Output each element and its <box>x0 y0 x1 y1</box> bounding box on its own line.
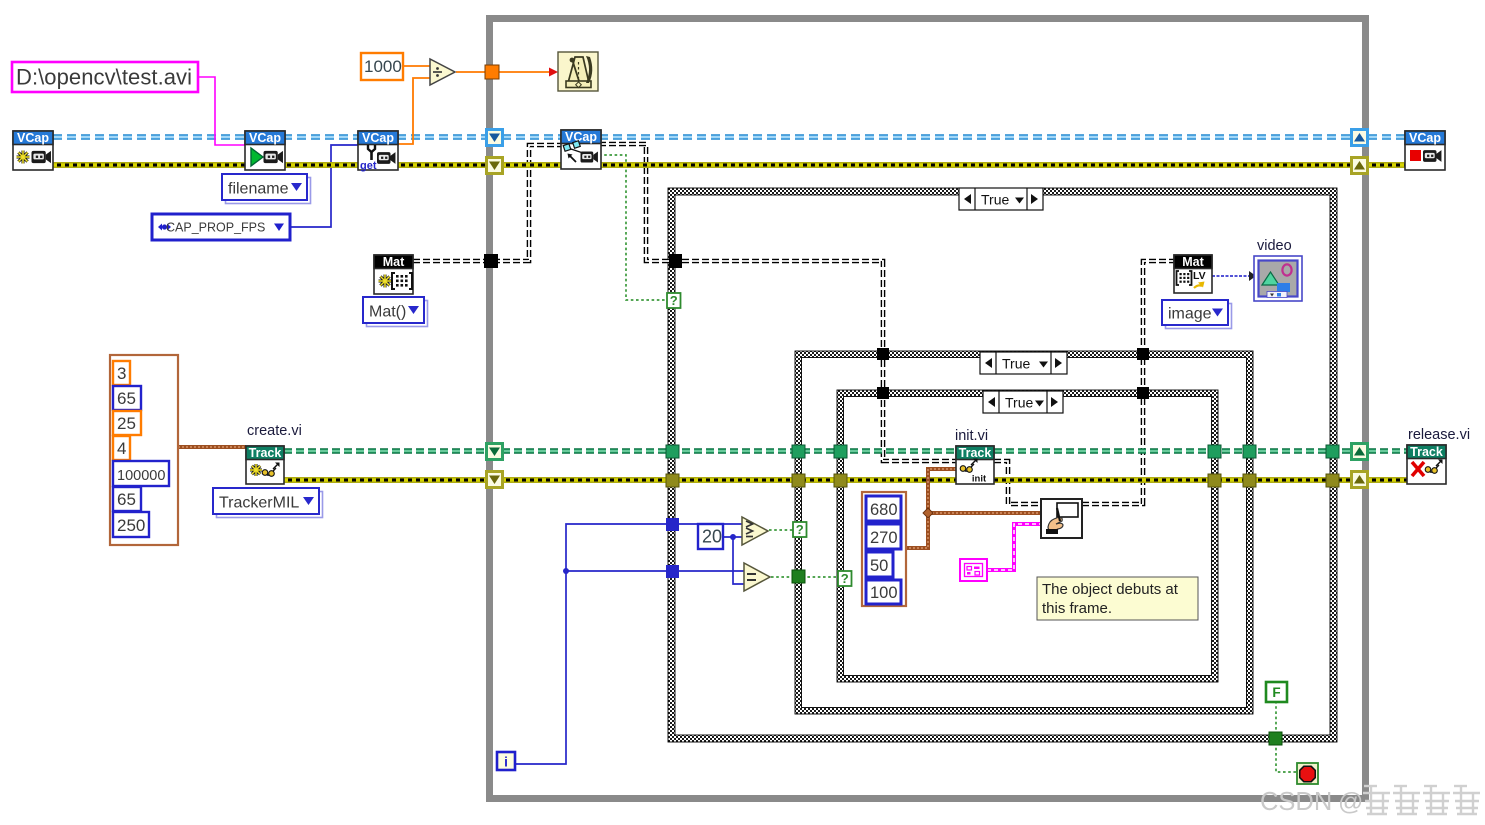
wire error cluster top (olive/black) <box>53 162 1405 168</box>
tunnel error (olive) inner right <box>1208 474 1221 487</box>
shift register left tracker (green, down) <box>485 442 504 461</box>
numeric 100 <box>866 580 901 604</box>
cluster constant rectangle 680/270/50/100 <box>862 492 906 606</box>
svg-text:4: 4 <box>117 439 126 458</box>
ring constant image <box>1162 300 1232 329</box>
wire rect cluster branch to draw node <box>923 508 1041 518</box>
node Mat constant (new Mat) <box>374 255 413 294</box>
tunnel tracker (green) middle right <box>1243 445 1256 458</box>
watermark CJK glyphs <box>1363 786 1390 814</box>
tunnel wait ms (orange) on loop border <box>485 65 499 79</box>
node draw rectangle <box>1041 499 1082 538</box>
wire i counter to comparisons <box>514 524 742 764</box>
shift register left error top (olive, down) <box>485 156 504 175</box>
selector terminal ? outer case <box>667 293 681 308</box>
svg-text:680: 680 <box>870 501 898 519</box>
svg-text:?: ? <box>796 522 804 537</box>
svg-text:video: video <box>1257 238 1292 254</box>
selector terminal ? middle case <box>793 522 807 537</box>
wire rect cluster to init.vi <box>905 469 956 548</box>
numeric 65b (blue) <box>113 487 141 511</box>
iteration terminal i <box>497 752 515 770</box>
svg-text:25: 25 <box>117 414 136 433</box>
numeric constant 1000 <box>361 53 403 80</box>
svg-text:Mat(): Mat() <box>369 304 406 321</box>
svg-text:create.vi: create.vi <box>247 423 302 439</box>
shift register left error bottom (olive, down) <box>485 470 504 489</box>
svg-text:CSDN: CSDN <box>1260 788 1332 816</box>
svg-text:50: 50 <box>870 557 888 575</box>
svg-text:VCap: VCap <box>362 131 394 145</box>
numeric 4 (orange) <box>113 436 130 460</box>
svg-text:270: 270 <box>870 529 898 547</box>
wire divide to wait node <box>456 68 558 77</box>
wire error cluster bottom (olive/black) <box>284 477 1407 483</box>
svg-text:?: ? <box>841 571 849 586</box>
shift register right tracker (green, up) <box>1350 442 1369 461</box>
svg-text:True: True <box>981 192 1009 208</box>
node create.vi (Track) <box>246 446 284 484</box>
svg-text:@: @ <box>1338 788 1363 816</box>
numeric 250 (blue) <box>113 512 149 537</box>
svg-text:image: image <box>1168 306 1212 323</box>
wire parameters cluster to create.vi <box>178 445 246 449</box>
tunnel Mat (black) on inner case top left <box>877 387 889 399</box>
tunnel tracker (green) inner right <box>1208 445 1221 458</box>
svg-text:250: 250 <box>117 516 145 535</box>
svg-text:VCap: VCap <box>1409 131 1441 145</box>
tunnel Mat (black) on middle case top right <box>1137 348 1149 360</box>
case label inner True <box>983 391 1063 413</box>
tunnel tracker (green) inner left <box>834 445 847 458</box>
tunnel tracker (green) outer left <box>666 445 679 458</box>
wire Mat image from read node into outer case down to init.vi <box>599 144 956 461</box>
wire boolean from >= to middle case selector <box>769 529 793 531</box>
svg-text:get: get <box>360 160 377 172</box>
wire CAP_PROP_FPS to VCap get <box>290 145 358 227</box>
case structure middle (True) <box>795 351 1253 714</box>
svg-text:True: True <box>1005 395 1033 411</box>
node VCap release <box>1405 131 1445 170</box>
wire Mat image (black chain) from Mat constant into loop to read node <box>413 145 561 261</box>
svg-text:filename: filename <box>228 181 289 198</box>
wire 1000 to divide <box>403 65 430 67</box>
svg-text:D:\opencv\test.avi: D:\opencv\test.avi <box>16 65 192 90</box>
indicator video (image display terminal) <box>1254 256 1302 301</box>
shift register right error top (olive, up) <box>1350 156 1369 175</box>
svg-text:?: ? <box>670 293 678 308</box>
numeric 100000 (blue) <box>113 461 169 486</box>
case structure inner (True) <box>837 390 1218 682</box>
wire 20 constant to >= and = <box>723 534 744 584</box>
svg-text:100: 100 <box>870 584 898 602</box>
tunnel tracker (green) outer right <box>1326 445 1339 458</box>
node text options constant (magenta) <box>960 559 987 581</box>
numeric 3 (orange) <box>113 361 130 385</box>
svg-text:CAP_PROP_FPS: CAP_PROP_FPS <box>166 221 265 235</box>
tunnel boolean (green) outer case bottom for F wire <box>1269 732 1282 745</box>
tunnel int i (blue) outer case upper <box>666 518 679 531</box>
case label outer True <box>959 188 1043 210</box>
svg-text:init.vi: init.vi <box>955 428 988 444</box>
wire image to video indicator <box>1212 271 1256 281</box>
svg-text:this frame.: this frame. <box>1042 600 1112 617</box>
svg-text:20: 20 <box>702 527 722 547</box>
svg-text:65: 65 <box>117 490 136 509</box>
svg-text:Track: Track <box>1410 445 1443 459</box>
node VCap open (camera constructor) <box>13 131 53 170</box>
svg-text:Track: Track <box>249 446 282 460</box>
svg-text:VCap: VCap <box>565 130 597 144</box>
numeric 270 <box>866 524 901 549</box>
tunnel tracker (green) middle left <box>792 445 805 458</box>
selector terminal ? inner case <box>838 571 852 586</box>
svg-text:100000: 100000 <box>117 468 165 484</box>
wire tracker reference (green dashed) <box>284 448 1407 453</box>
cluster constant tracker parameters <box>110 355 178 545</box>
svg-text:VCap: VCap <box>17 131 49 145</box>
svg-text:VCap: VCap <box>249 131 281 145</box>
shift register right VCap (cyan, up) <box>1350 128 1369 147</box>
node VCap read frame <box>561 130 601 169</box>
tunnel error (olive) outer left <box>666 474 679 487</box>
node VCap isOpened/run <box>245 131 285 170</box>
svg-text:i: i <box>504 755 508 770</box>
tunnel error (olive) middle right <box>1243 474 1256 487</box>
node init.vi (Track) <box>956 446 994 485</box>
tunnel Mat (black) on middle case top left <box>877 348 889 360</box>
while loop border <box>490 19 1366 799</box>
shift register left VCap (cyan, down) <box>485 128 504 147</box>
node release.vi (Track) <box>1407 445 1446 484</box>
wire boolean from read node to outer case selector <box>599 155 667 300</box>
wire VCap get fps to divide <box>397 78 430 144</box>
numeric 50 <box>866 552 893 577</box>
node divide <box>430 59 455 85</box>
ring constant Mat() <box>363 297 428 327</box>
svg-text:True: True <box>1002 356 1030 372</box>
wire text options to draw node (magenta dashed) <box>987 524 1041 570</box>
svg-text:Mat: Mat <box>383 255 405 269</box>
node equal <box>744 563 770 591</box>
watermark CSDN <box>1260 788 1363 816</box>
boolean False constant F <box>1266 682 1287 702</box>
wire Mat image from init.vi to draw node <box>994 461 1041 504</box>
wire boolean from F constant to stop terminal <box>1276 701 1297 772</box>
tunnel Mat (black) on inner case top right <box>1137 387 1149 399</box>
shift register right error bottom (olive, up) <box>1350 470 1369 489</box>
svg-text:release.vi: release.vi <box>1408 427 1470 443</box>
wire VCap reference (cyan dashed) <box>53 134 1405 139</box>
svg-text:F: F <box>1272 685 1280 700</box>
svg-text:TrackerMIL: TrackerMIL <box>219 495 299 512</box>
case structure outer (True) <box>668 188 1337 742</box>
svg-text:65: 65 <box>117 389 136 408</box>
svg-text:Mat: Mat <box>1182 255 1204 269</box>
svg-text:Track: Track <box>959 446 992 460</box>
tunnel error (olive) inner left <box>834 474 847 487</box>
string constant D:\opencv\test.avi <box>12 62 198 92</box>
tunnel error (olive) middle left <box>792 474 805 487</box>
numeric constant 20 <box>698 524 723 549</box>
enum constant CAP_PROP_FPS <box>152 214 290 240</box>
node VCap get (wrench) <box>358 131 398 172</box>
wire i branch to = <box>563 568 744 574</box>
case label middle True <box>980 352 1067 374</box>
node wait until next ms multiple (metronome) <box>558 52 598 91</box>
tunnel error (olive) outer right <box>1326 474 1339 487</box>
node greater or equal <box>742 517 768 545</box>
wire string path to VCap open (pink squiggle) <box>198 77 245 145</box>
svg-text:The object debuts at: The object debuts at <box>1042 581 1179 598</box>
stop terminal (red octagon) <box>1297 763 1318 784</box>
tunnel Mat (black) on outer case left <box>669 254 682 268</box>
tunnel Mat (black) on loop border <box>484 254 498 268</box>
svg-text:3: 3 <box>117 364 126 383</box>
svg-text:1000: 1000 <box>364 57 402 76</box>
tunnel boolean (green) middle case for = wire <box>792 570 805 583</box>
ring constant filename <box>222 174 311 204</box>
numeric 25 (orange) <box>113 411 141 435</box>
tunnel int i (blue) outer case lower <box>666 565 679 578</box>
comment tooltip "The object debuts at this frame." <box>1037 577 1198 620</box>
svg-text:LV: LV <box>1193 270 1206 282</box>
wire Mat image from draw node up to Mat LV node <box>1082 261 1174 504</box>
wire boolean from = to inner case selector <box>771 576 838 578</box>
ring constant TrackerMIL <box>213 488 323 518</box>
numeric 65 (blue) <box>113 386 141 410</box>
numeric 680 <box>866 496 901 521</box>
node Mat to LV image <box>1174 255 1212 293</box>
svg-text:init: init <box>972 474 987 485</box>
